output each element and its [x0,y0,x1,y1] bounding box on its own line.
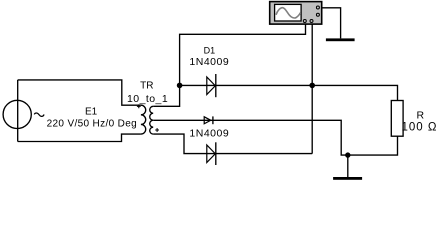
ground bottom stub [347,155,349,177]
resistor R [391,101,403,137]
diode mini center [204,116,213,124]
oscilloscope terminal bottom A [303,20,306,23]
svg-text:D1: D1 [204,46,216,56]
node junction dot right [309,83,315,89]
svg-text:R: R [417,110,425,122]
svg-text:1N4009: 1N4009 [189,56,229,68]
transformer TR primary winding [141,105,146,134]
node junction dot ground [345,152,350,157]
wire E1 loop bottom [18,134,141,141]
wire E1 loop top [18,80,141,105]
wire E1 loop left [17,80,19,142]
wire secondary bottom branch [153,134,312,154]
svg-text:10_to_1: 10_to_1 [127,93,168,105]
diode D1 [207,74,216,97]
ground bottom bar [333,177,362,180]
wire D1 branch to resistor top [180,85,398,100]
diode bottom 1N4009 [207,142,216,165]
transformer primary + mark [137,104,141,108]
wire scope channel B vertical [311,21,313,154]
oscilloscope terminal right top [316,6,319,9]
oscilloscope terminal bottom B [310,20,313,23]
AC source E1 [3,100,31,128]
transformer TR secondary winding [150,106,153,134]
oscilloscope terminal right bottom [316,13,319,16]
wire scope right terminal to ground [322,8,341,39]
node junction dot left [177,83,183,89]
AC source tilde [34,113,44,116]
svg-text:100 Ω: 100 Ω [402,121,438,133]
svg-text:1N4009: 1N4009 [189,128,229,140]
oscilloscope sine trace [276,8,300,18]
svg-text:TR: TR [140,81,153,92]
ground scope bar [326,38,355,41]
svg-text:220 V/50 Hz/0 Deg: 220 V/50 Hz/0 Deg [47,119,137,130]
transformer secondary + mark [155,128,159,132]
svg-text:E1: E1 [85,106,98,117]
wire secondary top to scope channel A [153,24,305,106]
oscilloscope screen [275,4,302,21]
wire center tap to resistor bottom [153,120,397,155]
oscilloscope body [270,2,322,25]
